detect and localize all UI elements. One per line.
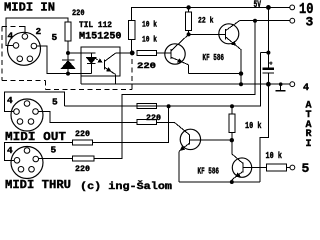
svg-text:4: 4: [303, 83, 309, 94]
svg-text:MIDI THRU: MIDI THRU: [5, 178, 71, 192]
svg-text:220: 220: [146, 114, 161, 123]
svg-text:I: I: [306, 139, 312, 150]
svg-text:TIL 112: TIL 112: [79, 21, 112, 30]
svg-text:MIDI OUT: MIDI OUT: [5, 130, 66, 144]
svg-text:220: 220: [137, 62, 156, 71]
svg-text:220: 220: [75, 130, 90, 139]
svg-text:220: 220: [75, 165, 90, 174]
svg-text:22 k: 22 k: [198, 17, 214, 26]
svg-text:(c) ing-Šalom: (c) ing-Šalom: [80, 179, 172, 192]
svg-text:5V: 5V: [254, 0, 262, 11]
svg-text:10 k: 10 k: [142, 36, 157, 45]
svg-text:220: 220: [72, 9, 85, 18]
svg-text:5: 5: [52, 32, 58, 43]
svg-text:3: 3: [306, 15, 314, 30]
svg-text:5: 5: [51, 145, 57, 156]
svg-text:4: 4: [7, 95, 13, 106]
svg-text:10 k: 10 k: [142, 21, 157, 30]
svg-text:10 k: 10 k: [266, 150, 283, 161]
svg-text:10 k: 10 k: [245, 120, 262, 131]
svg-text:5: 5: [52, 97, 58, 108]
svg-text:5: 5: [302, 161, 310, 176]
svg-text:4: 4: [8, 31, 14, 42]
svg-text:MIDI IN: MIDI IN: [4, 1, 55, 15]
svg-text:2: 2: [36, 26, 42, 37]
svg-text:KF 586: KF 586: [203, 53, 225, 63]
svg-text:M151250: M151250: [79, 32, 122, 43]
svg-text:4: 4: [7, 145, 13, 156]
svg-text:KF 586: KF 586: [198, 167, 220, 177]
